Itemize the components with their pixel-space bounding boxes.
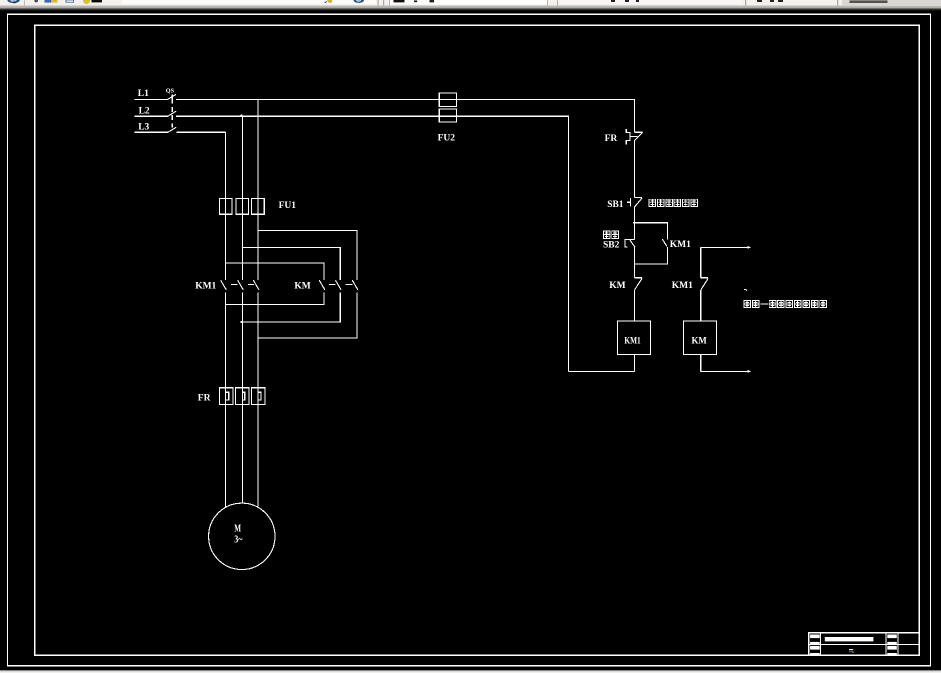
thermal relay FR heater 2: [235, 388, 248, 405]
button SB2 bar: [626, 238, 634, 240]
wire KM branch A top: [226, 263, 324, 280]
coil KM1 label: [624, 336, 640, 346]
thermal relay FR heater 3: [252, 388, 266, 405]
svg-text:SB2: SB2: [603, 240, 620, 250]
coil KM1 body: [617, 321, 650, 354]
button SB2 blade: [630, 239, 636, 247]
wire right branch seg1: [700, 247, 702, 277]
fuse FU2 body 1: [439, 93, 456, 106]
svg-text:KM1: KM1: [624, 336, 640, 346]
junction nub bridge B: [241, 321, 243, 323]
title block text blobs: [810, 635, 897, 656]
contactor KM main contact 2: [335, 280, 341, 290]
wire KM branch C bottom: [258, 292, 357, 338]
wire KM branch B top: [242, 248, 340, 281]
button SB1 label: [607, 200, 624, 210]
contactor KM main contact 3: [352, 280, 358, 290]
wire KM branch B bottom: [242, 292, 341, 322]
button SB2 label: [603, 240, 620, 250]
fuse FU2 label: [438, 134, 456, 144]
control left rail bottom wire: [568, 370, 634, 372]
control main rail seg2: [633, 207, 635, 239]
svg-text:FR: FR: [605, 134, 618, 144]
contactor KM1 main contact 2: [238, 280, 244, 290]
contactor KM1 main contact 3: [253, 280, 259, 290]
svg-text:M: M: [234, 524, 241, 535]
thermal contact FR label: [605, 134, 618, 144]
coil KM1 bottom wire: [633, 354, 635, 371]
button SB1 blade: [635, 198, 643, 207]
wire L3 left: [135, 131, 168, 133]
svg-text:KM1: KM1: [670, 240, 691, 250]
node L2: [139, 106, 150, 116]
control main rail seg3: [633, 247, 635, 278]
contact KM interlock tick: [634, 277, 642, 279]
junction nub L2 tap: [241, 114, 243, 116]
wire phase A to KM1 contact: [224, 214, 226, 280]
wire L1 right to control corner: [176, 99, 634, 132]
button SB1 actuator: [627, 198, 631, 206]
wire L1 left: [135, 98, 168, 100]
wire phase A vertical: [224, 132, 226, 199]
wire phase B to KM1 contact: [241, 214, 243, 280]
contact KM1 interlock label: [672, 281, 693, 291]
contactor KM main contact 1: [319, 280, 325, 290]
wire phase C to KM1 contact: [257, 214, 259, 280]
fuse FU1 body 2: [236, 199, 249, 215]
switch QS pole 3 blade: [168, 127, 176, 132]
svg-text:3~: 3~: [234, 534, 243, 545]
TOOLBAR: [0, 0, 941, 10]
wire external bottom rail: [701, 370, 749, 372]
wire L2 right to left rail corner: [176, 116, 568, 371]
annotation external circuit text: [744, 300, 826, 307]
contact KM1 interlock tick: [701, 277, 709, 279]
thermal relay FR heater 1: [219, 388, 233, 405]
contactor KM1 main contact 1: [221, 280, 227, 290]
contact KM1 interlock blade: [701, 278, 708, 290]
wire L3 right: [177, 131, 226, 133]
wire latch branch top: [634, 223, 667, 240]
switch QS pole 1 blade: [168, 94, 176, 99]
coil KM body: [684, 321, 717, 354]
contactor KM1 main label: [195, 281, 216, 291]
fuse FU1 body 1: [219, 199, 232, 215]
thermal relay FR label: [198, 393, 211, 403]
thermal contact FR tick: [634, 131, 642, 133]
svg-text:L1: L1: [138, 89, 149, 99]
button SB2 stop annotation: [603, 231, 618, 238]
wire phase B vertical: [241, 116, 243, 199]
wire KM branch A bottom: [226, 292, 324, 304]
motor M label: [234, 524, 243, 546]
coil KM label: [692, 336, 707, 346]
switch QS linkage: [171, 94, 173, 103]
wire latch branch bottom: [634, 247, 667, 264]
node L1: [138, 89, 149, 99]
switch QS pole 2 blade: [168, 111, 176, 116]
wire phase C vertical: [257, 99, 259, 198]
node L3: [138, 122, 149, 132]
contactor KM1 linkage dashes: [231, 283, 254, 285]
contact KM1 latch blade: [662, 239, 667, 246]
wire right branch seg2: [700, 290, 702, 321]
fuse FU1 label: [279, 201, 297, 211]
svg-text:SB1: SB1: [607, 200, 624, 210]
contactor KM main label: [294, 281, 310, 291]
svg-text:QS: QS: [166, 87, 175, 94]
svg-text:FU2: FU2: [438, 134, 456, 144]
control main rail seg1: [633, 141, 635, 198]
svg-text:KM1: KM1: [195, 281, 216, 291]
svg-text:L2: L2: [139, 106, 150, 116]
fuse FU1 wires through: [225, 199, 258, 215]
junction nub latch top: [633, 222, 635, 224]
contact KM1 latch label: [670, 240, 691, 250]
wire phase A below contact: [224, 292, 226, 507]
svg-text:KM: KM: [609, 281, 625, 291]
wire phase C below contact: [257, 292, 259, 506]
contact KM interlock label: [609, 281, 625, 291]
motor M body: [209, 503, 275, 569]
fuse FU1 body 3: [252, 199, 265, 215]
control main rail seg4: [633, 290, 635, 321]
wire L2 left: [135, 115, 168, 117]
contactor KM linkage dashes: [329, 283, 353, 285]
title block: [809, 633, 920, 656]
thermal contact FR bracket: [626, 129, 637, 144]
svg-text:KM: KM: [692, 336, 707, 346]
svg-text:L3: L3: [138, 122, 149, 132]
svg-text:FU1: FU1: [279, 201, 297, 211]
wire phase B below contact: [241, 292, 243, 503]
svg-text:FR: FR: [198, 393, 211, 403]
contact KM interlock blade: [635, 278, 643, 290]
thermal contact FR blade: [634, 132, 642, 140]
svg-text:KM1: KM1: [672, 281, 693, 291]
BOTTOM STRIP: [0, 670, 941, 673]
button SB2 actuator: [625, 239, 627, 247]
wire KM branch C top: [258, 230, 357, 280]
switch QS label: [166, 87, 175, 94]
arrow external top: [748, 246, 752, 249]
svg-text:KM: KM: [294, 281, 310, 291]
wire right branch seg3: [700, 354, 702, 371]
button SB1 tick: [634, 197, 642, 199]
fuse FU2 body 2: [439, 109, 456, 122]
arrow external bottom: [747, 370, 751, 373]
annotation manual start text: [649, 199, 697, 206]
tiny leader mark: [744, 290, 747, 291]
wire external top rail: [701, 246, 749, 248]
